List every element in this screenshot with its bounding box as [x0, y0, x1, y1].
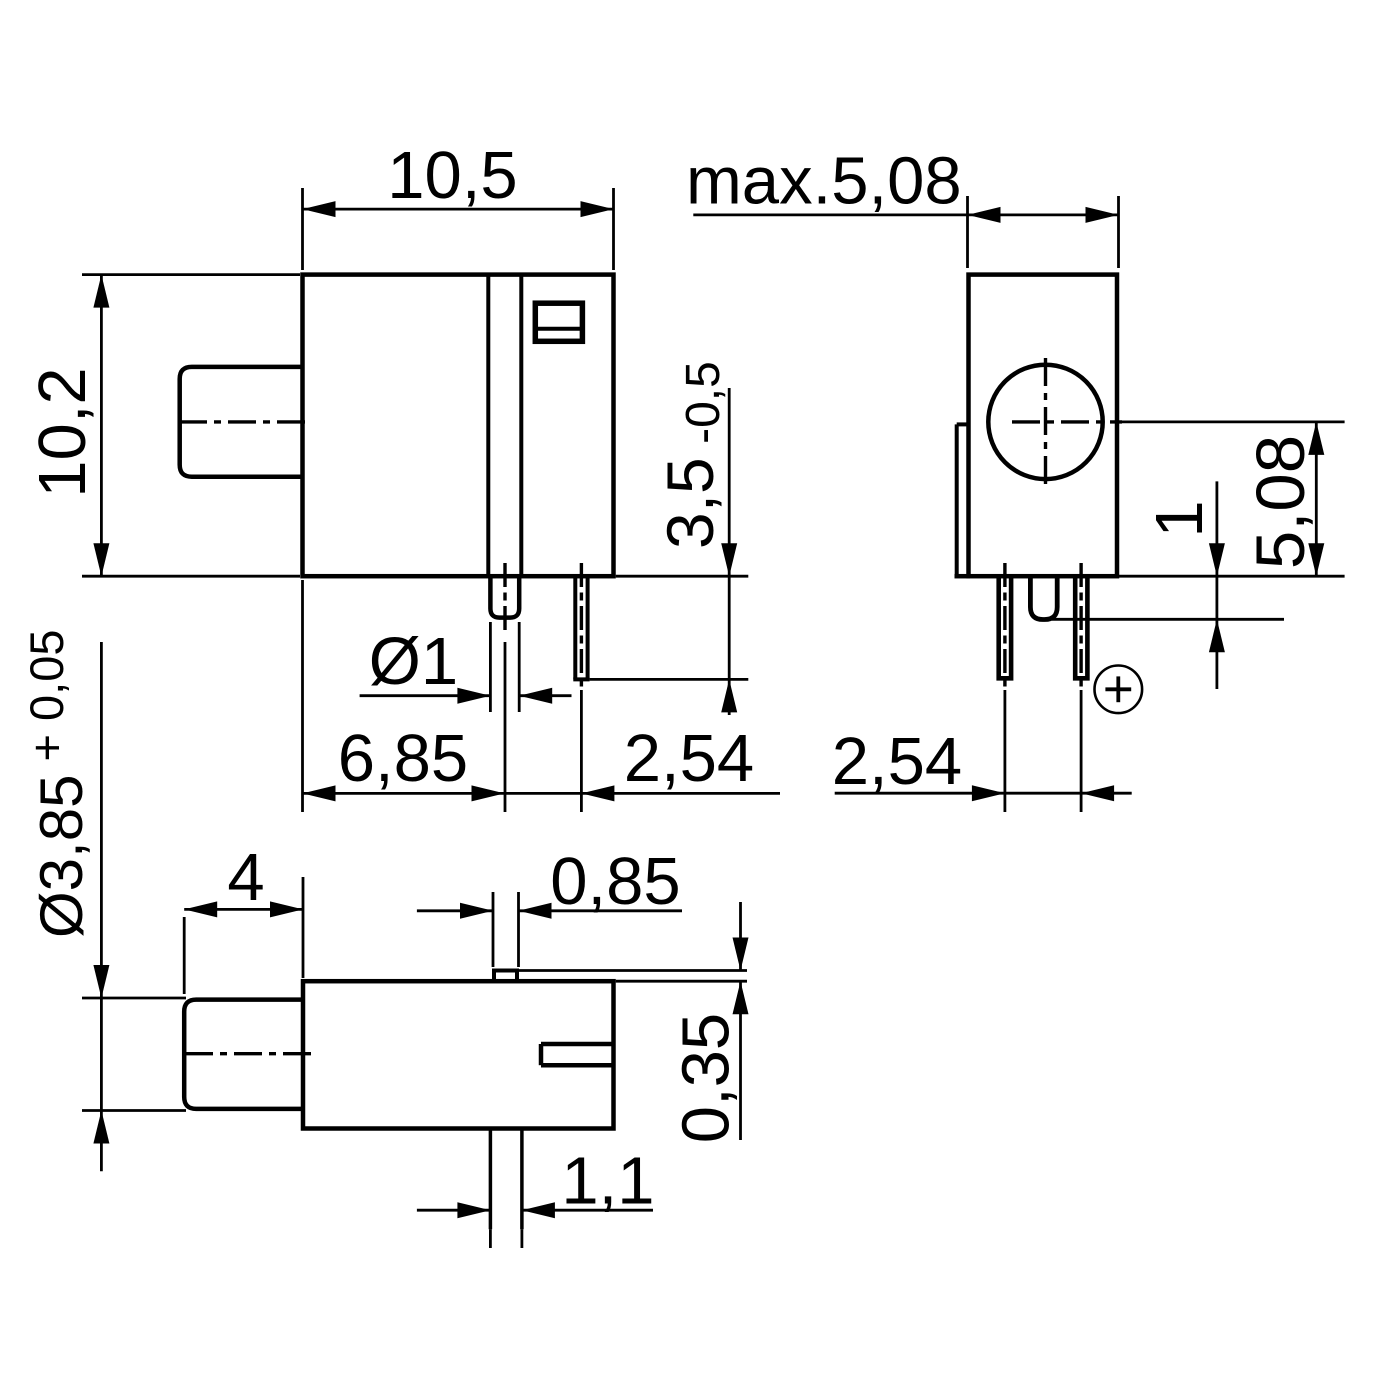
svg-text:max.5,08: max.5,08 — [686, 144, 962, 219]
polarity window symbol — [535, 303, 582, 341]
dimension 0,85 — [492, 892, 495, 967]
dimension 4 — [183, 917, 186, 994]
dimension Ø1 — [489, 622, 492, 712]
lens centerline (top view) — [185, 1052, 317, 1055]
dimension 2,54 (left view) — [505, 792, 781, 795]
box bottom edge extension right — [616, 575, 749, 578]
middle pin centerline — [503, 563, 506, 634]
plus polarity symbol — [1095, 666, 1143, 714]
svg-text:Ø1: Ø1 — [369, 624, 458, 699]
housing body (top view) — [303, 981, 614, 1128]
svg-text:10,2: 10,2 — [25, 367, 100, 497]
LED lens (side view) — [180, 367, 303, 477]
middle pin (side view) — [490, 576, 519, 618]
right pin bottom extension line — [590, 678, 749, 681]
pin edge extensions for 1,1 — [489, 1229, 492, 1248]
right pin bottom cap — [573, 677, 589, 681]
centerline extension to 5,08 dim — [1122, 420, 1345, 423]
dimension 10,5 — [301, 188, 304, 270]
svg-text:2,54: 2,54 — [624, 721, 754, 796]
right notch — [541, 1042, 614, 1047]
dimension 1,1 — [417, 1209, 491, 1212]
top tab — [492, 971, 496, 982]
left pin (front view) — [999, 575, 1011, 678]
dimension 10,2 — [82, 273, 300, 276]
dimension 5,08 — [1315, 422, 1318, 576]
lens centerline — [179, 420, 309, 423]
middle short pin (front view) — [1030, 576, 1057, 620]
dimension 2,54 (front view) — [835, 792, 1005, 795]
LED lens (top view) — [184, 1000, 303, 1109]
right pin (front view) — [1075, 575, 1087, 678]
LED circle (front view) — [988, 365, 1102, 479]
circle horizontal centerline — [1012, 420, 1122, 423]
middle pin centerline extension — [504, 642, 507, 812]
inner face line left — [486, 275, 490, 577]
left step flange — [955, 424, 959, 576]
right pin centerline — [580, 563, 583, 688]
right pin centerline extension — [580, 690, 583, 812]
middle pin bottom extension — [1052, 618, 1284, 621]
dimension 3,5 -0,5 — [728, 388, 731, 715]
right long pin (side view) — [573, 576, 577, 679]
svg-text:10,5: 10,5 — [387, 138, 517, 213]
box bottom extension (front view) — [1119, 575, 1345, 578]
svg-text:1,1: 1,1 — [561, 1144, 654, 1219]
dimension 1 — [1216, 481, 1219, 689]
circle vertical centerline — [1044, 358, 1047, 486]
bottom pin (top view) — [489, 1129, 493, 1230]
housing body (side view) — [303, 275, 614, 577]
step bottom closure — [955, 574, 971, 579]
inner face line right — [519, 275, 523, 577]
dimension 0,35 — [519, 969, 747, 972]
dimension Ø3,85 +0,05 — [82, 997, 186, 1000]
svg-text:2,54: 2,54 — [832, 724, 962, 799]
svg-text:6,85: 6,85 — [338, 721, 468, 796]
svg-text:1: 1 — [1142, 500, 1217, 537]
svg-text:0,85: 0,85 — [550, 844, 680, 919]
housing body (front view) — [969, 275, 1118, 577]
svg-text:5,08: 5,08 — [1242, 435, 1319, 569]
svg-text:0,35: 0,35 — [669, 1013, 744, 1143]
svg-text:4: 4 — [227, 840, 264, 915]
dimension 6,85 — [301, 580, 304, 812]
dimension max.5,08 — [966, 196, 969, 268]
